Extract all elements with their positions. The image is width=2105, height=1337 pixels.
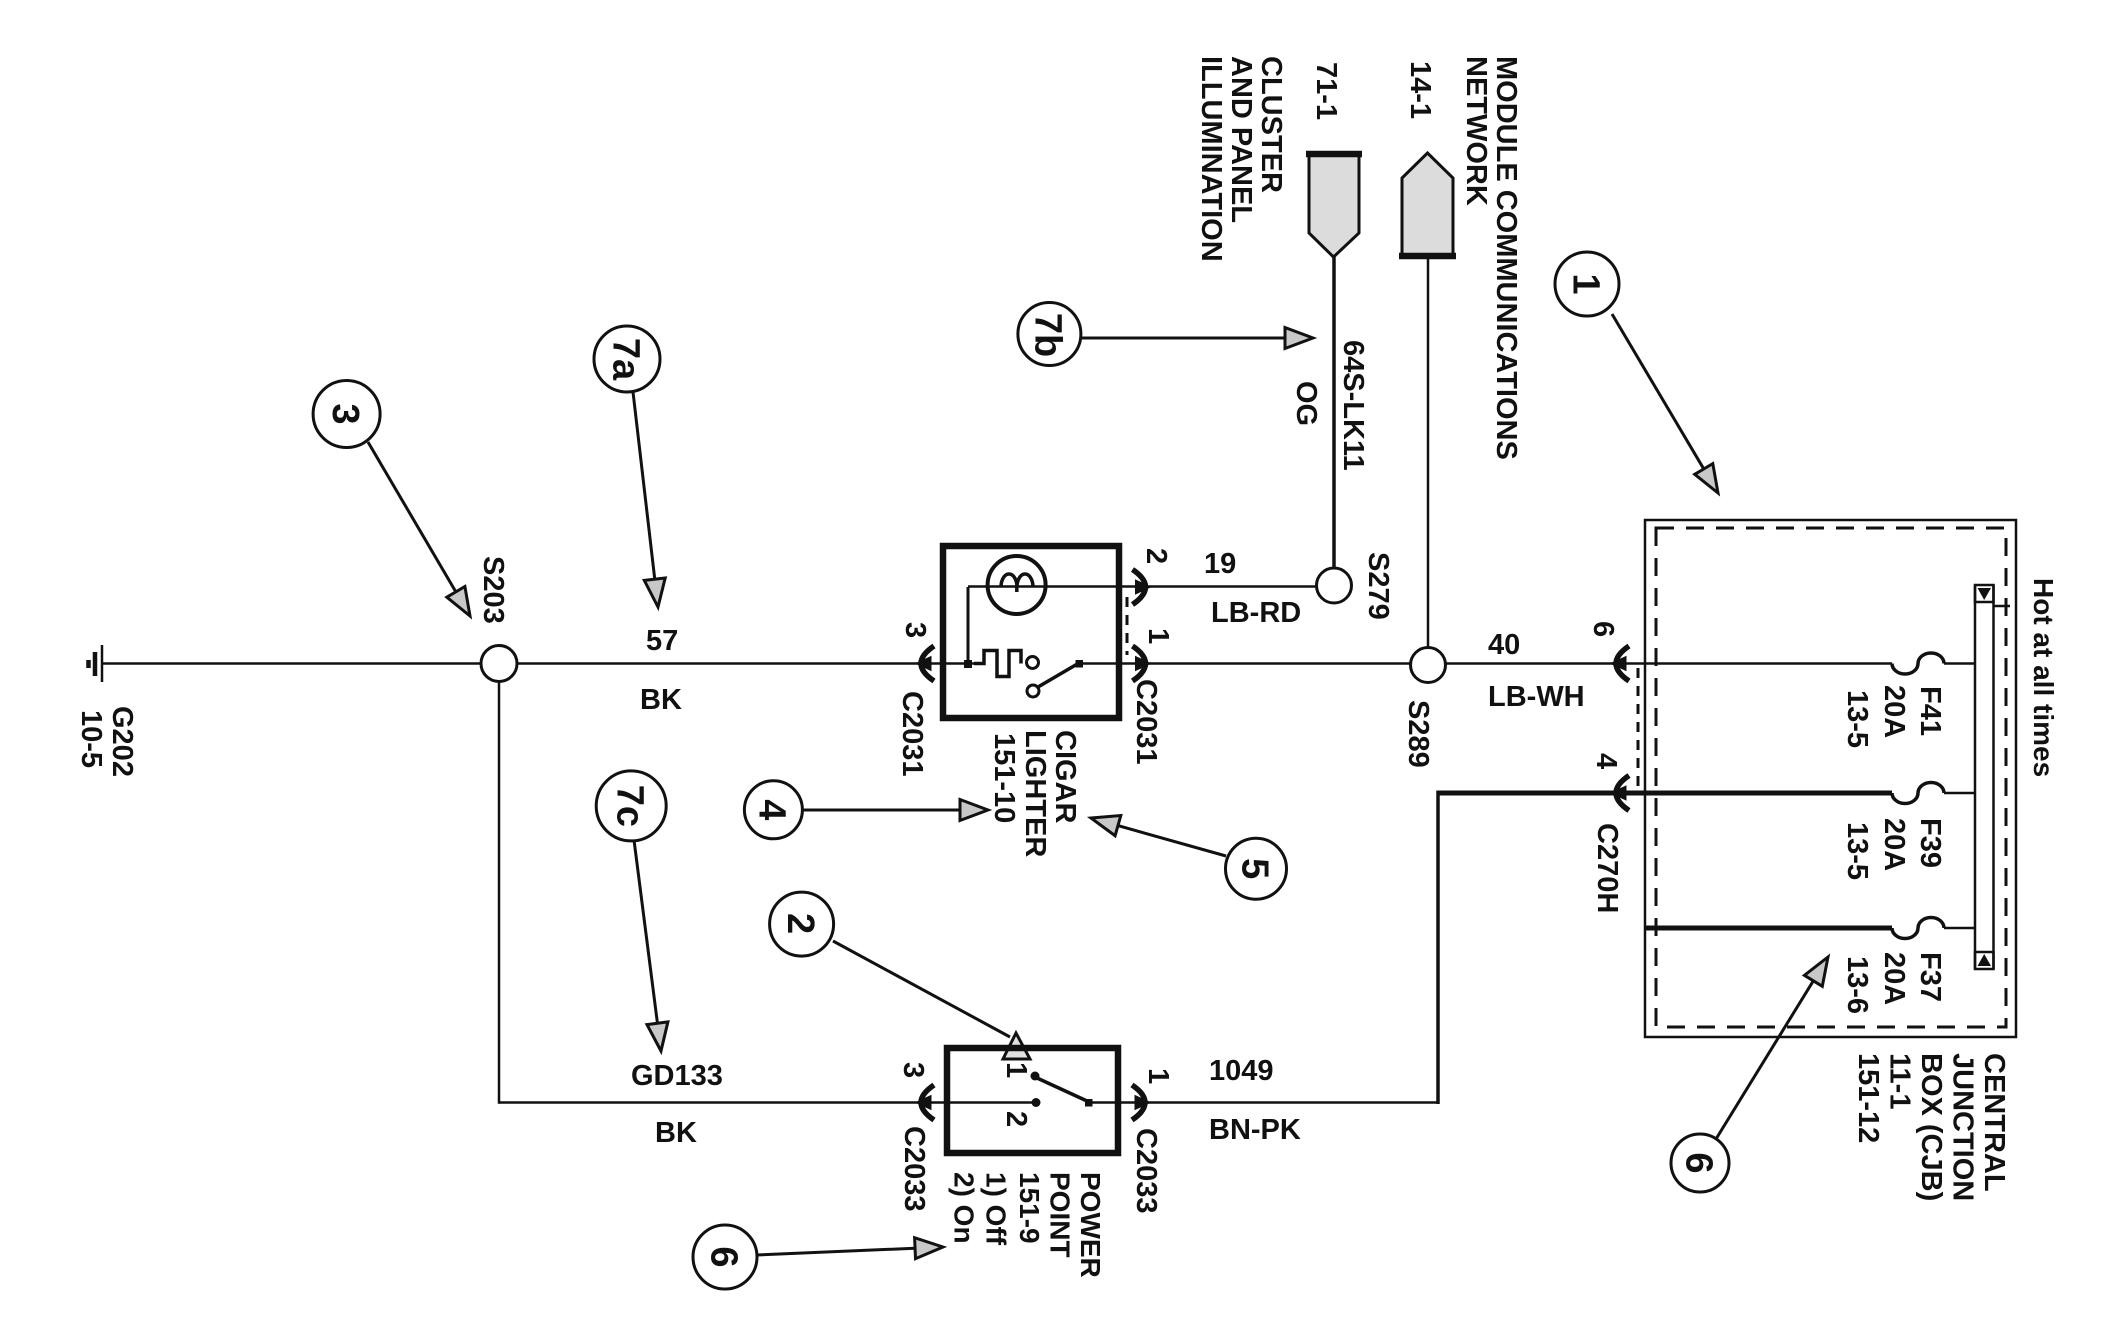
svg-text:2) On: 2) On [949,1172,980,1244]
fuse F39 20A [1841,783,1975,881]
central junction box outline [1645,520,2016,1037]
wire lamp riser [964,587,972,668]
svg-text:C2031: C2031 [896,691,928,776]
callout 7a to wire 57 [594,326,665,607]
wire BK S203 down to power point pin 3 [499,682,916,1150]
svg-text:MODULE COMMUNICATIONS: MODULE COMMUNICATIONS [1490,56,1522,460]
label Hot at all times [2028,578,2059,777]
svg-text:F41: F41 [1914,686,1946,736]
connector C270H boundary [1637,668,1640,790]
svg-text:JUNCTION: JUNCTION [1947,1053,1979,1201]
pin 3 connector C2033 [897,1062,934,1120]
svg-text:F37: F37 [1914,952,1946,1002]
svg-text:151-12: 151-12 [1852,1053,1884,1143]
connector C2033 right label [1130,1128,1162,1213]
svg-text:2: 2 [779,913,821,934]
svg-text:OG: OG [1290,381,1322,426]
svg-text:S203: S203 [477,556,509,624]
svg-text:G202: G202 [106,706,138,777]
svg-text:AND PANEL: AND PANEL [1225,56,1257,223]
splice S289 [1402,648,1446,768]
callout 7b to wire 64S-LK11 [1018,303,1313,366]
svg-text:C2033: C2033 [1130,1128,1162,1213]
label CIGAR LIGHTER 151-10 [988,730,1081,857]
pin 3 connector C2031 [899,622,934,681]
cigar lighter box [943,546,1119,718]
wire ground to S203 [102,662,481,665]
svg-text:ILLUMINATION: ILLUMINATION [1195,56,1227,262]
svg-text:1049: 1049 [1209,1055,1274,1087]
svg-text:LB-WH: LB-WH [1488,681,1585,713]
svg-text:S279: S279 [1362,552,1394,620]
callout 3 to S203 [313,381,470,617]
svg-text:2: 2 [1140,548,1172,564]
svg-text:19: 19 [1204,548,1236,580]
svg-text:1: 1 [1564,273,1606,294]
svg-text:NETWORK: NETWORK [1460,56,1492,206]
central junction box dashed outline [1656,528,2006,1027]
contact throw 1 power point [1031,1072,1040,1081]
svg-text:2: 2 [1000,1111,1032,1127]
label CLUSTER AND PANEL ILLUMINATION [1195,56,1287,262]
pin 1 connector C2031 [1133,628,1175,681]
svg-text:40: 40 [1488,629,1520,661]
svg-text:BK: BK [655,1117,697,1149]
splice S203 [477,556,517,682]
contact throw cigar lighter [1027,657,1039,669]
wire 57 BK S203 to cigar lighter pin 3 [517,625,974,716]
svg-text:GD133: GD133 [631,1060,723,1092]
callout 7c to GD133 [596,771,668,1051]
offpage connector 14-1 module communications network [1399,61,1456,256]
svg-text:6: 6 [1677,1152,1719,1173]
svg-text:BOX (CJB): BOX (CJB) [1915,1053,1947,1201]
svg-text:20A: 20A [1878,818,1910,871]
connector C2031 right label [1130,679,1162,764]
svg-text:Hot at all times: Hot at all times [2028,578,2059,777]
svg-text:CENTRAL: CENTRAL [1978,1053,2010,1192]
pin 1 connector C2033 [1132,1068,1174,1120]
contact throw 2 power point [1000,1098,1041,1127]
svg-text:20A: 20A [1878,685,1910,738]
svg-text:3: 3 [899,622,931,638]
svg-text:5: 5 [1233,858,1275,879]
svg-text:7a: 7a [604,338,646,381]
callout 6 to CJB fuse F37 [1671,957,1828,1192]
svg-text:6: 6 [1587,621,1619,637]
splice S279 [1317,552,1395,620]
svg-text:1) Off: 1) Off [981,1172,1012,1246]
connector C2031 boundary [1126,597,1129,655]
wire pin 3 inside power point [916,1101,1036,1104]
pin 6 connector CJB [1587,621,1629,681]
connector C2031 left label [896,691,928,776]
wire 40 LB-WH S289 to CJB pin 6 [1446,629,1893,713]
svg-text:POWER: POWER [1075,1172,1106,1278]
node GD133 [631,1060,723,1092]
callout 4 to cigar lighter [744,781,988,839]
svg-text:6: 6 [702,1246,744,1267]
svg-text:64S-LK11: 64S-LK11 [1337,340,1369,471]
callout 1 to CJB [1555,252,1718,493]
pin 2 connector C2031 [1133,548,1173,605]
svg-text:C270H: C270H [1591,823,1623,913]
svg-text:7b: 7b [1027,313,1069,357]
svg-text:3: 3 [324,403,366,424]
svg-text:C2033: C2033 [898,1126,930,1211]
svg-text:1: 1 [1142,628,1174,644]
wire pin 1 inside cigar lighter [1081,662,1411,665]
svg-text:10-5: 10-5 [75,710,107,768]
svg-text:S289: S289 [1402,700,1434,768]
svg-text:71-1: 71-1 [1310,62,1342,120]
svg-text:14-1: 14-1 [1404,61,1436,119]
wire 14-1 down to S289 [1427,256,1430,649]
power point box [947,1048,1118,1153]
svg-text:F39: F39 [1914,818,1946,868]
svg-text:CIGAR: CIGAR [1049,730,1081,824]
wire CJB pin 4 to fuse F39 [1611,791,1892,796]
svg-text:151-10: 151-10 [988,733,1020,823]
heating element cigar lighter [974,651,1021,677]
svg-text:LB-RD: LB-RD [1211,597,1301,629]
svg-text:1: 1 [1142,1068,1174,1084]
svg-text:13-5: 13-5 [1841,822,1873,880]
switch blade cigar lighter [1038,660,1083,687]
connector C2033 left label [898,1126,930,1211]
label CENTRAL JUNCTION BOX (CJB) 11-1 151-12 [1852,1053,2010,1201]
callout 2 to power point [770,892,1030,1059]
lamp L1 cigar lighter illumination [968,556,1316,614]
svg-text:13-6: 13-6 [1841,956,1873,1014]
svg-text:4: 4 [1590,753,1622,769]
svg-text:CLUSTER: CLUSTER [1255,56,1287,193]
svg-text:1: 1 [1000,1062,1032,1078]
svg-text:13-5: 13-5 [1841,690,1873,748]
offpage connector 71-1 cluster illumination [1306,62,1362,257]
switch blade power point [1037,1078,1093,1107]
connector C270H label [1591,823,1623,913]
fuse F37 20A [1841,918,1975,1015]
label POWER POINT 151-9 1) Off 2) On [949,1172,1107,1278]
svg-text:57: 57 [646,625,678,657]
bus bar hot at all times [1975,585,2010,969]
svg-text:11-1: 11-1 [1884,1053,1916,1109]
contact 1 label power point [1000,1062,1032,1078]
svg-text:POINT: POINT [1045,1172,1076,1258]
svg-text:7c: 7c [609,785,651,827]
callout 6 to power point [693,1225,943,1289]
wire 19 LB-RD labels [1204,548,1301,629]
svg-text:BN-PK: BN-PK [1209,1114,1301,1146]
svg-text:BK: BK [640,684,682,716]
svg-text:3: 3 [897,1062,929,1078]
svg-text:LIGHTER: LIGHTER [1019,730,1051,857]
wire thick CJB pin 4 to power point branch [1438,791,1611,1105]
wire CJB to fuse F37 [1646,926,1892,931]
wire 64S-LK11 OG S279 up to 71-1 [1290,257,1369,568]
contact pole cigar lighter [1027,685,1039,697]
ground G202 [75,645,138,777]
wire 1049 BN-PK power point pin 1 to branch [1089,1055,1439,1146]
svg-text:20A: 20A [1878,952,1910,1005]
pin 4 connector CJB [1590,753,1629,811]
fuse F41 20A [1841,653,1975,748]
callout 5 to cigar lighter [1091,816,1287,900]
label MODULE COMMUNICATIONS NETWORK [1460,56,1522,460]
svg-text:4: 4 [751,799,793,820]
svg-text:151-9: 151-9 [1014,1172,1045,1244]
svg-text:C2031: C2031 [1130,679,1162,764]
